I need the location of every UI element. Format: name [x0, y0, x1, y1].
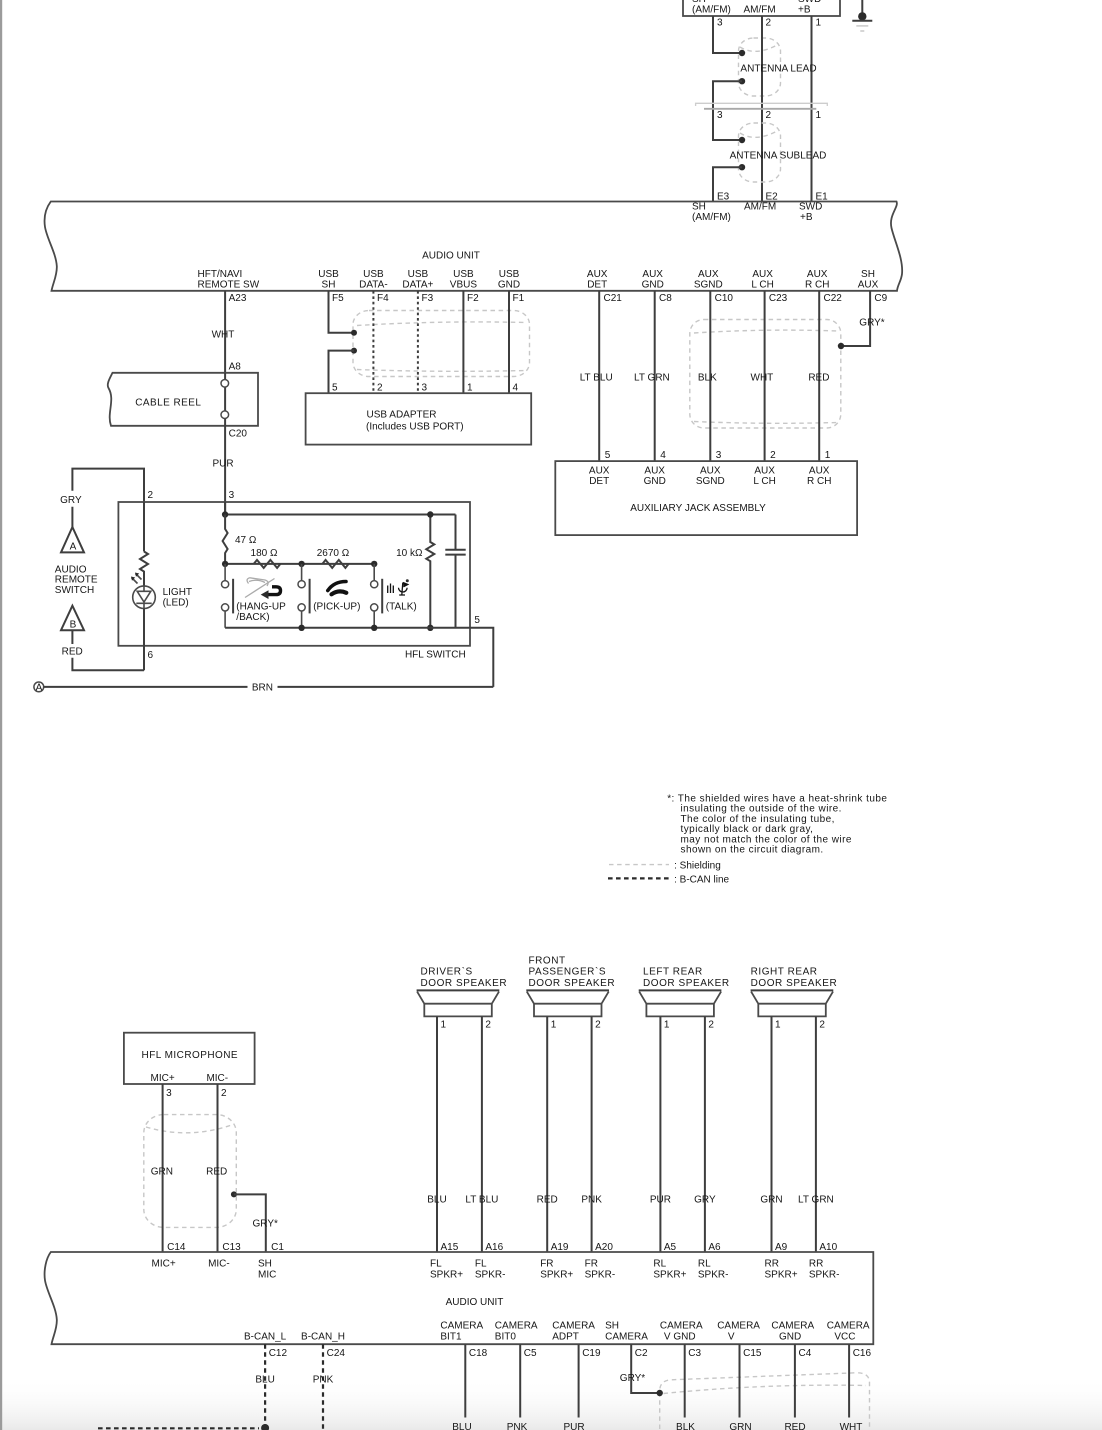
svg-text:A19: A19 — [551, 1242, 569, 1253]
svg-text:V: V — [728, 1331, 735, 1342]
svg-text:(PICK-UP): (PICK-UP) — [313, 602, 360, 613]
svg-text:AUX: AUX — [642, 269, 663, 280]
svg-text:/BACK): /BACK) — [236, 612, 269, 623]
wire AM/FM pin2 — [761, 16, 763, 202]
bottom rail / pin 5 — [225, 628, 493, 687]
svg-text:: B-CAN line: : B-CAN line — [674, 875, 729, 886]
svg-text:LT GRN: LT GRN — [798, 1194, 834, 1205]
svg-text:GND: GND — [498, 279, 520, 290]
svg-text:MIC+: MIC+ — [151, 1073, 175, 1084]
svg-text:USB: USB — [453, 269, 474, 280]
wire F1 (USB GND) — [508, 291, 510, 393]
wire C23 AUX L CH — [764, 291, 766, 461]
svg-text:AUX: AUX — [698, 269, 719, 280]
svg-text:WHT: WHT — [751, 373, 774, 384]
svg-text:(Includes USB PORT): (Includes USB PORT) — [366, 422, 464, 433]
svg-text:5: 5 — [332, 383, 338, 394]
wire CAMERA VCC WHT — [848, 1344, 850, 1417]
svg-text:VCC: VCC — [834, 1331, 855, 1342]
svg-text:F5: F5 — [332, 293, 344, 304]
wire B-CAN_L BLU — [264, 1344, 266, 1424]
svg-text:RL: RL — [653, 1259, 666, 1270]
B-CAN line to left — [98, 1427, 259, 1429]
shield tube (antenna lead) — [739, 38, 781, 96]
wire F5 to shield — [329, 291, 352, 333]
svg-text:GND: GND — [779, 1331, 801, 1342]
svg-text:BLU: BLU — [452, 1422, 471, 1430]
svg-text:HFT/NAVI: HFT/NAVI — [198, 269, 243, 280]
svg-text:LIGHT: LIGHT — [163, 587, 192, 598]
svg-text:USB: USB — [363, 269, 384, 280]
audio unit box 2 — [45, 1252, 874, 1344]
svg-text:3: 3 — [166, 1088, 172, 1099]
svg-text:L CH: L CH — [753, 476, 775, 487]
svg-text:DOOR SPEAKER: DOOR SPEAKER — [751, 978, 838, 989]
svg-text:2: 2 — [766, 110, 772, 121]
svg-text:C10: C10 — [715, 293, 734, 304]
B-CAN junction — [261, 1424, 269, 1430]
svg-text:F3: F3 — [422, 293, 434, 304]
svg-text:AUX: AUX — [700, 466, 721, 477]
wire C9 SH AUX to shield — [843, 291, 870, 346]
svg-text:ANTENNA SUBLEAD: ANTENNA SUBLEAD — [730, 151, 827, 162]
svg-text:(HANG-UP: (HANG-UP — [236, 602, 286, 613]
wire CAMERA BIT1 BLU — [464, 1344, 466, 1417]
svg-text:C21: C21 — [604, 293, 623, 304]
svg-text:(AM/FM): (AM/FM) — [692, 5, 731, 16]
middle rail — [225, 563, 374, 565]
svg-text:DOOR SPEAKER: DOOR SPEAKER — [529, 978, 616, 989]
svg-text:AUX: AUX — [858, 279, 879, 290]
svg-text:1: 1 — [775, 1020, 781, 1031]
wire CAMERA ADPT PUR — [578, 1344, 580, 1417]
HFL switch box — [118, 502, 470, 646]
svg-text:A: A — [70, 542, 77, 553]
svg-text:WHT: WHT — [840, 1422, 863, 1430]
svg-text:4: 4 — [513, 383, 519, 394]
wire C20 PUR — [224, 426, 226, 515]
svg-text:DOOR SPEAKER: DOOR SPEAKER — [421, 978, 508, 989]
svg-text:180 Ω: 180 Ω — [251, 548, 278, 559]
light LED — [133, 586, 156, 609]
svg-text:V GND: V GND — [664, 1331, 696, 1342]
wire SH CAMERA to shield — [631, 1344, 657, 1393]
svg-text:SPKR+: SPKR+ — [430, 1270, 463, 1281]
wire C8 AUX GND — [654, 291, 656, 461]
svg-text:SPKR-: SPKR- — [585, 1270, 616, 1281]
cable reel terminals — [224, 373, 226, 426]
wire FL SPKR+ BLU — [436, 1016, 438, 1252]
svg-text:BRN: BRN — [252, 683, 273, 694]
svg-text:RED: RED — [206, 1167, 227, 1178]
svg-text:USB ADAPTER: USB ADAPTER — [367, 410, 437, 421]
svg-text:C15: C15 — [743, 1348, 762, 1359]
svg-text:A9: A9 — [775, 1242, 788, 1253]
svg-text:C20: C20 — [229, 428, 248, 439]
svg-text:SH: SH — [861, 269, 875, 280]
svg-text:USB: USB — [408, 269, 429, 280]
svg-text:SPKR+: SPKR+ — [765, 1270, 798, 1281]
svg-text:AUX: AUX — [752, 269, 773, 280]
pick-up icon — [328, 582, 346, 591]
svg-text:A15: A15 — [441, 1242, 459, 1253]
svg-text:DOOR SPEAKER: DOOR SPEAKER — [643, 978, 730, 989]
svg-text:47 Ω: 47 Ω — [235, 535, 257, 546]
svg-text:USB: USB — [499, 269, 520, 280]
svg-text:SPKR+: SPKR+ — [653, 1270, 686, 1281]
svg-text:LT GRN: LT GRN — [634, 373, 670, 384]
svg-text:GRN: GRN — [760, 1194, 782, 1205]
svg-text:RR: RR — [765, 1259, 779, 1270]
svg-text:A8: A8 — [229, 361, 242, 372]
svg-text:C9: C9 — [874, 293, 887, 304]
svg-text:A16: A16 — [485, 1242, 503, 1253]
connector circle A — [34, 682, 44, 692]
svg-text:DET: DET — [589, 476, 609, 487]
svg-text:A5: A5 — [664, 1242, 677, 1253]
wire RL SPKR- GRY — [704, 1016, 706, 1252]
svg-text:1: 1 — [816, 18, 822, 29]
svg-text:2: 2 — [708, 1020, 714, 1031]
svg-text:BIT0: BIT0 — [495, 1331, 517, 1342]
wire shield to E3 — [739, 164, 745, 170]
svg-text:AUDIO UNIT: AUDIO UNIT — [446, 1297, 504, 1308]
svg-text:CAMERA: CAMERA — [605, 1331, 648, 1342]
svg-text:(TALK): (TALK) — [386, 602, 417, 613]
svg-text:AM/FM: AM/FM — [744, 5, 776, 16]
svg-text:AUDIO UNIT: AUDIO UNIT — [422, 251, 480, 262]
wire CAMERA GND RED — [794, 1344, 796, 1417]
svg-text:1: 1 — [441, 1020, 447, 1031]
svg-text:A6: A6 — [708, 1242, 721, 1253]
cable reel box — [108, 373, 258, 426]
capacitor — [455, 515, 457, 628]
svg-text:AUX: AUX — [807, 269, 828, 280]
wire F3 (USB DATA+) — [417, 291, 419, 393]
svg-text:PNK: PNK — [313, 1375, 334, 1386]
wire FR SPKR- PNK — [591, 1016, 593, 1252]
svg-text:RED: RED — [62, 647, 83, 658]
svg-text:1: 1 — [825, 450, 831, 461]
svg-text:FRONT: FRONT — [529, 956, 566, 967]
svg-text:(LED): (LED) — [163, 598, 189, 609]
wire C10 AUX SGND — [709, 291, 711, 461]
shield tube (antenna sublead) — [739, 123, 781, 182]
svg-text:6: 6 — [148, 650, 154, 661]
svg-text:1: 1 — [816, 110, 822, 121]
svg-text:DATA+: DATA+ — [402, 279, 433, 290]
svg-text:C16: C16 — [853, 1348, 872, 1359]
svg-text:3: 3 — [716, 450, 722, 461]
shielding legend — [609, 864, 669, 866]
triangle connector B — [61, 606, 84, 631]
svg-text:SH: SH — [258, 1259, 272, 1270]
svg-text:GRY*: GRY* — [620, 1373, 645, 1384]
page left border — [0, 0, 2, 1430]
svg-text:2: 2 — [819, 1020, 825, 1031]
driver's door speaker — [417, 989, 500, 991]
svg-text:ANTENNA LEAD: ANTENNA LEAD — [740, 64, 816, 75]
wire CAMERA BIT0 PNK — [519, 1344, 521, 1417]
antenna connector box (cut off at top) — [683, 0, 840, 16]
svg-text:SGND: SGND — [694, 279, 723, 290]
svg-text:BLK: BLK — [698, 373, 717, 384]
ground — [861, 0, 863, 13]
svg-text:4: 4 — [660, 450, 666, 461]
camera shield tube — [660, 1373, 870, 1429]
svg-text:CAMERA: CAMERA — [660, 1320, 703, 1331]
svg-text:AUX: AUX — [589, 466, 610, 477]
hang-up icon — [245, 578, 275, 598]
svg-text:BLU: BLU — [427, 1194, 446, 1205]
svg-text:RED: RED — [784, 1422, 805, 1430]
svg-text:MIC-: MIC- — [208, 1259, 230, 1270]
svg-text:CAMERA: CAMERA — [440, 1320, 483, 1331]
svg-text:2: 2 — [770, 450, 776, 461]
svg-text:SH: SH — [322, 279, 336, 290]
svg-text:FL: FL — [430, 1259, 442, 1270]
svg-text:B-CAN_L: B-CAN_L — [244, 1331, 287, 1342]
wire F2 (USB VBUS) — [462, 291, 464, 393]
svg-text:+B: +B — [800, 212, 813, 223]
svg-text:SPKR-: SPKR- — [809, 1270, 840, 1281]
svg-text:SWITCH: SWITCH — [55, 585, 94, 596]
svg-text:SH: SH — [605, 1320, 619, 1331]
wire shield to joint — [739, 78, 745, 84]
svg-text:SGND: SGND — [696, 476, 725, 487]
svg-text:CAMERA: CAMERA — [827, 1320, 870, 1331]
aux shield tube — [690, 320, 841, 429]
wire B-CAN_H PNK — [322, 1344, 324, 1429]
svg-text:LEFT REAR: LEFT REAR — [643, 967, 703, 978]
svg-text:SPKR-: SPKR- — [698, 1270, 729, 1281]
svg-text:FR: FR — [585, 1259, 598, 1270]
svg-text:CAMERA: CAMERA — [552, 1320, 595, 1331]
svg-text:REMOTE SW: REMOTE SW — [198, 279, 260, 290]
left rear door speaker — [639, 989, 722, 991]
svg-text:ADPT: ADPT — [552, 1331, 579, 1342]
svg-text:PNK: PNK — [581, 1194, 602, 1205]
svg-text:SPKR+: SPKR+ — [540, 1270, 573, 1281]
svg-text:A10: A10 — [819, 1242, 837, 1253]
resistor 10kohm — [426, 515, 434, 628]
auxiliary jack assembly box — [555, 461, 857, 535]
svg-text:C4: C4 — [799, 1348, 812, 1359]
connector joint — [696, 103, 828, 106]
svg-text:AUXILIARY JACK ASSEMBLY: AUXILIARY JACK ASSEMBLY — [630, 503, 766, 514]
svg-text:: Shielding: : Shielding — [674, 861, 721, 872]
wire C22 AUX R CH — [818, 291, 820, 461]
svg-text:1: 1 — [664, 1020, 670, 1031]
BRN wire — [44, 686, 494, 688]
wire shield to usb adapter pin5 — [351, 348, 357, 354]
resistor 180ohm — [254, 560, 281, 568]
svg-text:PUR: PUR — [212, 459, 233, 470]
svg-text:GRY: GRY — [694, 1194, 716, 1205]
svg-text:2: 2 — [148, 490, 154, 501]
wire SH(AM/FM) pin3 to shield — [713, 16, 740, 53]
svg-text:CAMERA: CAMERA — [495, 1320, 538, 1331]
svg-text:AUX: AUX — [587, 269, 608, 280]
wire F4 (USB DATA-) — [372, 291, 374, 393]
HFL microphone box — [124, 1033, 255, 1084]
svg-text:2: 2 — [221, 1088, 227, 1099]
svg-text:C13: C13 — [222, 1242, 241, 1253]
wire FR SPKR+ RED — [546, 1016, 548, 1252]
svg-text:SWD: SWD — [799, 201, 822, 212]
svg-text:5: 5 — [474, 615, 480, 626]
usb shield tube — [353, 311, 530, 377]
wire RR SPKR+ GRN — [771, 1016, 773, 1252]
svg-text:A20: A20 — [595, 1242, 613, 1253]
svg-text:F2: F2 — [467, 293, 479, 304]
svg-text:RR: RR — [809, 1259, 823, 1270]
pin 6 wire — [143, 609, 145, 671]
svg-text:CAMERA: CAMERA — [771, 1320, 814, 1331]
svg-text:F1: F1 — [513, 293, 525, 304]
svg-text:AUX: AUX — [809, 466, 830, 477]
svg-text:GRY*: GRY* — [859, 318, 884, 329]
svg-text:C8: C8 — [659, 293, 672, 304]
svg-text:FL: FL — [475, 1259, 487, 1270]
svg-text:3: 3 — [229, 490, 235, 501]
svg-text:DATA-: DATA- — [359, 279, 388, 290]
svg-text:10 kΩ: 10 kΩ — [396, 548, 423, 559]
svg-text:MIC-: MIC- — [206, 1073, 228, 1084]
svg-text:2: 2 — [595, 1020, 601, 1031]
svg-text:3: 3 — [717, 18, 723, 29]
svg-text:CABLE REEL: CABLE REEL — [135, 397, 201, 408]
svg-text:C2: C2 — [635, 1348, 648, 1359]
svg-text:DET: DET — [587, 279, 607, 290]
triangle connector A — [61, 527, 84, 552]
wire SH MIC from shield — [231, 1191, 237, 1197]
svg-text:MIC+: MIC+ — [152, 1259, 176, 1270]
svg-text:2: 2 — [377, 383, 383, 394]
wire MIC+ GRN — [162, 1084, 164, 1252]
svg-text:WHT: WHT — [212, 329, 235, 340]
svg-text:RED: RED — [537, 1194, 558, 1205]
svg-text:SH: SH — [692, 201, 706, 212]
svg-text:+B: +B — [798, 5, 811, 16]
svg-text:PUR: PUR — [563, 1422, 584, 1430]
talk icon — [388, 583, 408, 596]
svg-text:C3: C3 — [688, 1348, 701, 1359]
svg-text:GRN: GRN — [151, 1167, 173, 1178]
audio unit box 1 — [45, 202, 903, 291]
B-CAN legend — [608, 877, 669, 879]
svg-text:B: B — [70, 619, 77, 630]
svg-text:DRIVER`S: DRIVER`S — [421, 966, 473, 978]
svg-text:R CH: R CH — [807, 476, 831, 487]
svg-text:PASSENGER`S: PASSENGER`S — [529, 966, 607, 978]
svg-text:GND: GND — [642, 279, 664, 290]
svg-text:2: 2 — [766, 18, 772, 29]
hang-up switch — [224, 564, 226, 628]
mic shield tube — [144, 1115, 237, 1228]
svg-text:GRY: GRY — [60, 495, 82, 506]
svg-text:PUR: PUR — [650, 1194, 671, 1205]
svg-text:BLU: BLU — [255, 1375, 274, 1386]
svg-text:A23: A23 — [229, 293, 247, 304]
svg-text:A: A — [36, 682, 43, 693]
svg-text:CAMERA: CAMERA — [717, 1320, 760, 1331]
wire MIC- RED — [217, 1084, 219, 1252]
svg-text:B-CAN_H: B-CAN_H — [301, 1331, 345, 1342]
front passenger's door speaker — [526, 989, 609, 991]
wire CAMERA V GRN — [739, 1344, 741, 1417]
svg-text:LT BLU: LT BLU — [580, 373, 613, 384]
LED dropper resistor — [140, 502, 148, 586]
svg-text:C18: C18 — [469, 1348, 488, 1359]
svg-text:AUX: AUX — [754, 466, 775, 477]
wire RL SPKR+ PUR — [659, 1016, 661, 1252]
svg-text:PNK: PNK — [507, 1422, 528, 1430]
resistor 47ohm — [223, 515, 228, 564]
HFL top rail — [225, 502, 455, 515]
svg-text:BIT1: BIT1 — [440, 1331, 462, 1342]
svg-text:C1: C1 — [271, 1242, 284, 1253]
svg-text:R CH: R CH — [805, 279, 829, 290]
wire CAMERA V GND BLK — [684, 1344, 686, 1417]
svg-text:C12: C12 — [269, 1348, 288, 1359]
pick-up switch — [301, 564, 303, 628]
svg-text:HFL MICROPHONE: HFL MICROPHONE — [142, 1050, 239, 1061]
resistor 2670ohm — [322, 560, 348, 568]
svg-text:MIC: MIC — [258, 1270, 276, 1281]
svg-text:HFL SWITCH: HFL SWITCH — [405, 649, 466, 660]
talk switch — [373, 564, 375, 628]
svg-text:BLK: BLK — [676, 1422, 695, 1430]
svg-text:GRY*: GRY* — [253, 1219, 278, 1230]
svg-text:2670 Ω: 2670 Ω — [317, 548, 350, 559]
svg-text:C14: C14 — [167, 1242, 186, 1253]
svg-text:FR: FR — [540, 1259, 553, 1270]
usb adapter box — [306, 393, 532, 444]
svg-text:C24: C24 — [327, 1348, 346, 1359]
LED arrows — [132, 574, 142, 584]
svg-text:shown on the circuit diagram.: shown on the circuit diagram. — [681, 845, 824, 856]
svg-text:SPKR-: SPKR- — [475, 1270, 506, 1281]
svg-text:VBUS: VBUS — [450, 279, 478, 290]
svg-text:RL: RL — [698, 1259, 711, 1270]
wire C21 AUX DET — [598, 291, 600, 461]
svg-text:1: 1 — [551, 1020, 557, 1031]
svg-text:C23: C23 — [769, 293, 788, 304]
wire SWD+B pin1 — [811, 16, 813, 202]
svg-text:RED: RED — [808, 373, 829, 384]
svg-text:USB: USB — [318, 269, 339, 280]
svg-text:RIGHT REAR: RIGHT REAR — [751, 967, 818, 978]
svg-text:C19: C19 — [582, 1348, 601, 1359]
svg-text:C22: C22 — [824, 293, 843, 304]
svg-text:AM/FM: AM/FM — [744, 201, 776, 212]
wire RR SPKR- LT GRN — [815, 1016, 817, 1252]
svg-text:3: 3 — [717, 110, 723, 121]
svg-text:5: 5 — [605, 450, 611, 461]
svg-text:L CH: L CH — [751, 279, 773, 290]
svg-text:1: 1 — [467, 383, 473, 394]
svg-text:2: 2 — [485, 1020, 491, 1031]
right rear door speaker — [751, 989, 834, 991]
svg-text:(AM/FM): (AM/FM) — [692, 212, 731, 223]
wire A23 WHT — [224, 291, 226, 373]
svg-text:C5: C5 — [524, 1348, 537, 1359]
wire FL SPKR- LT BLU — [481, 1016, 483, 1252]
svg-text:LT BLU: LT BLU — [465, 1194, 498, 1205]
svg-text:GND: GND — [644, 476, 666, 487]
svg-text:AUX: AUX — [644, 466, 665, 477]
